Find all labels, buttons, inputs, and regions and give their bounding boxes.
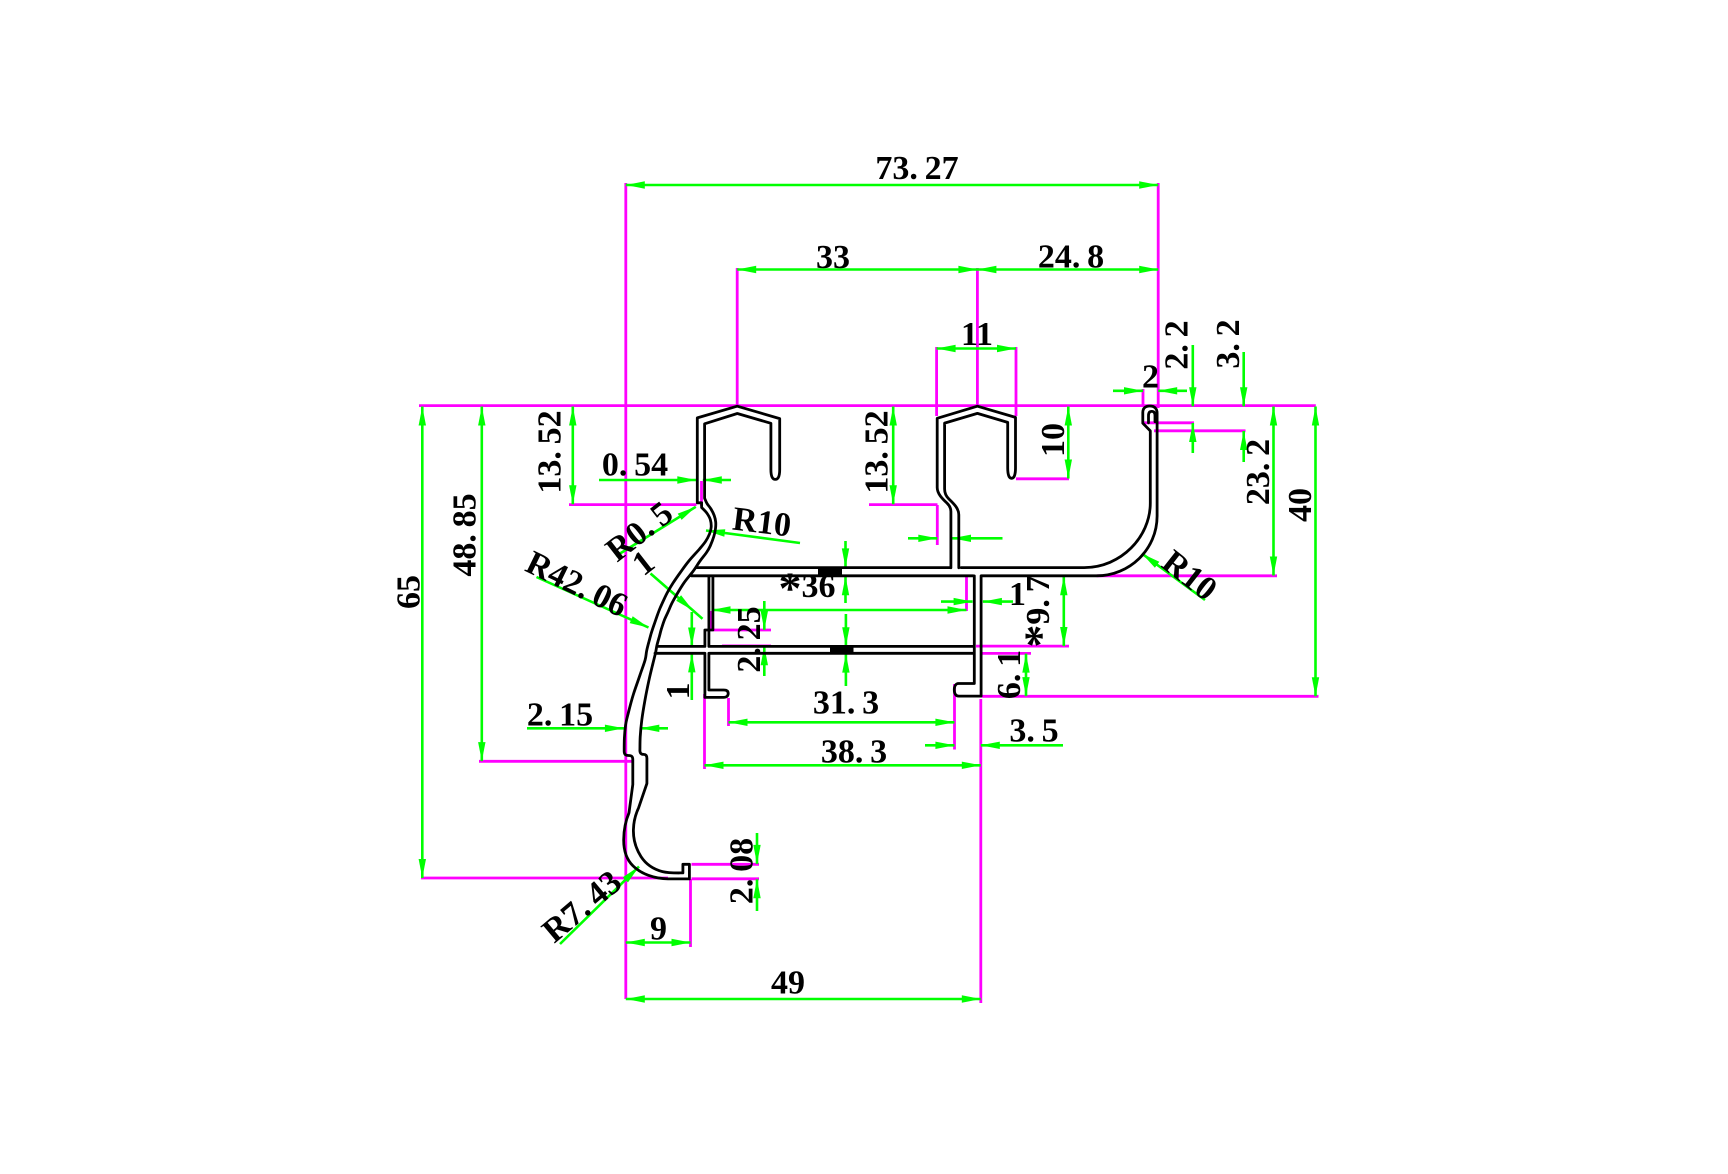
- svg-text:2: 2: [1142, 359, 1159, 396]
- svg-text:48. 85: 48. 85: [447, 493, 484, 576]
- svg-text:2. 08: 2. 08: [724, 838, 761, 904]
- svg-text:2. 25: 2. 25: [731, 606, 768, 672]
- svg-text:31. 3: 31. 3: [813, 685, 879, 722]
- svg-text:13. 52: 13. 52: [859, 410, 896, 493]
- svg-text:3. 2: 3. 2: [1210, 319, 1247, 368]
- svg-text:49: 49: [771, 965, 805, 1002]
- svg-text:2. 2: 2. 2: [1159, 320, 1196, 369]
- svg-text:13. 52: 13. 52: [532, 410, 569, 493]
- svg-text:0. 54: 0. 54: [602, 447, 668, 484]
- svg-text:40: 40: [1282, 488, 1319, 522]
- svg-text:3. 5: 3. 5: [1009, 713, 1058, 750]
- svg-text:65: 65: [391, 575, 428, 609]
- svg-text:11: 11: [961, 316, 993, 353]
- svg-text:R10: R10: [731, 501, 794, 545]
- svg-text:23. 2: 23. 2: [1240, 439, 1277, 505]
- svg-text:10: 10: [1035, 423, 1072, 457]
- svg-text:9: 9: [650, 911, 667, 948]
- svg-text:73. 27: 73. 27: [875, 150, 958, 187]
- svg-text:33: 33: [816, 239, 850, 276]
- svg-text:2. 15: 2. 15: [527, 697, 593, 734]
- svg-text:24. 8: 24. 8: [1038, 239, 1104, 276]
- svg-text:38. 3: 38. 3: [821, 734, 887, 771]
- svg-text:1: 1: [660, 683, 697, 700]
- svg-text:6. 1: 6. 1: [991, 650, 1028, 699]
